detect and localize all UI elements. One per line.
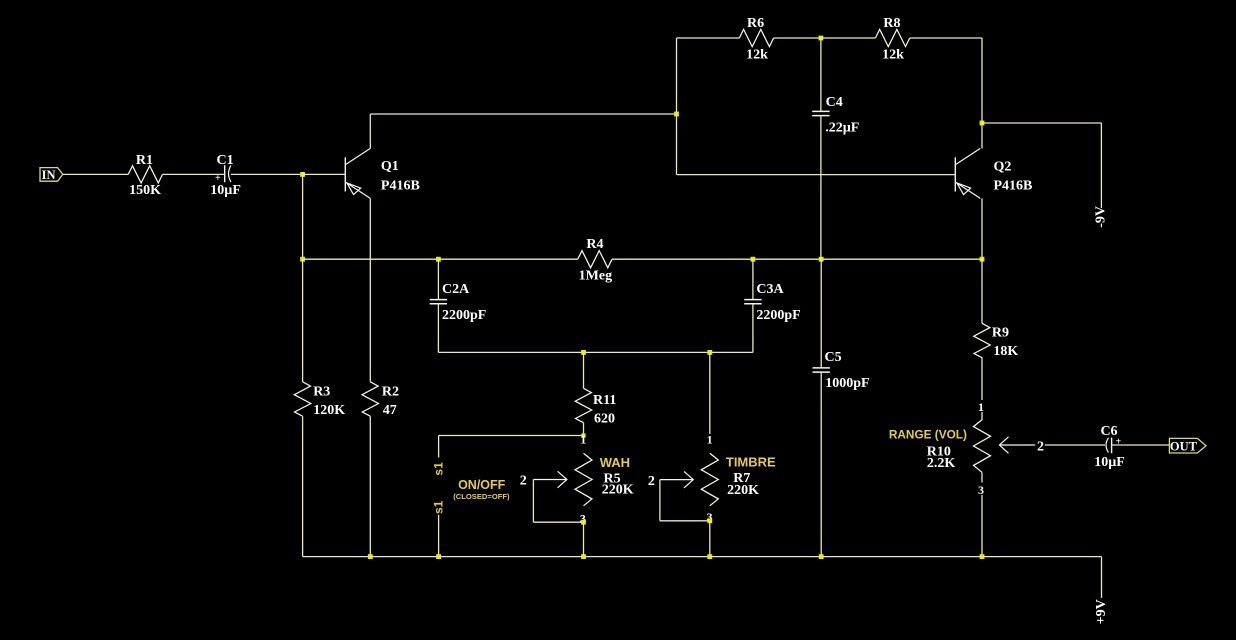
svg-text:2.2K: 2.2K (927, 456, 956, 471)
resistor R6 (739, 29, 773, 46)
svg-text:s1: s1 (431, 500, 445, 514)
svg-text:R11: R11 (593, 393, 616, 408)
wire R5 wiper to pin3 (532, 480, 534, 523)
svg-text:+9V: +9V (1094, 599, 1109, 624)
svg-text:R1: R1 (136, 153, 153, 168)
svg-text:TIMBRE: TIMBRE (726, 454, 776, 469)
svg-text:2: 2 (520, 474, 527, 489)
wire s1 to rail (438, 515, 440, 557)
wire top left to R6 (677, 37, 740, 39)
svg-text:WAH: WAH (600, 455, 630, 470)
wire R9 to R10 (981, 358, 983, 400)
svg-text:620: 620 (594, 412, 615, 427)
node A junction (Q1 base node) (300, 172, 305, 177)
junction -9V tap (980, 121, 985, 126)
pot R5 wiper arrow (533, 479, 566, 481)
wire R10 to rail (981, 473, 983, 483)
junction C2A top (436, 257, 441, 262)
svg-text:-9V: -9V (1093, 206, 1108, 228)
svg-text:3: 3 (978, 483, 984, 497)
wire switch node to s1 (439, 435, 584, 437)
wire Q1 emitter down to R2 (369, 198, 371, 381)
junction rail s1 (436, 554, 441, 559)
wire bridge line C2A to C3A (438, 351, 753, 353)
resistor R9 (974, 323, 991, 357)
svg-text:R8: R8 (883, 16, 900, 31)
svg-text:2200pF: 2200pF (756, 308, 800, 323)
svg-text:220K: 220K (727, 483, 759, 498)
wire to R7 pot (709, 352, 711, 434)
wire to R11 (583, 352, 585, 388)
wire ground rail (303, 556, 1102, 558)
svg-text:C3A: C3A (756, 282, 784, 297)
capacitor C6 (1106, 438, 1108, 453)
svg-text:P416B: P416B (994, 179, 1033, 194)
resistor R2 (362, 382, 379, 416)
svg-text:C2A: C2A (442, 282, 470, 297)
resistor R11 (575, 388, 592, 422)
wire R1 to C1 (163, 173, 225, 175)
svg-text:18K: 18K (993, 344, 1018, 359)
svg-text:R2: R2 (382, 384, 399, 399)
svg-text:10µF: 10µF (210, 183, 241, 198)
svg-text:1: 1 (580, 433, 586, 447)
wire C4 node to R8 (821, 37, 876, 39)
wire rail to +9V (1101, 557, 1103, 598)
svg-text:12k: 12k (882, 48, 904, 63)
wire R4 line left (303, 258, 578, 260)
svg-text:(CLOSED=OFF): (CLOSED=OFF) (453, 492, 510, 501)
svg-text:12k: 12k (746, 48, 768, 63)
svg-text:Q1: Q1 (381, 159, 399, 174)
wire R7 to rail (709, 521, 711, 557)
wire R5 to rail (583, 522, 585, 556)
svg-text:R3: R3 (313, 385, 330, 400)
wire node A to Q1 base (303, 173, 346, 175)
svg-text:150K: 150K (129, 183, 161, 198)
svg-text:P416B: P416B (381, 179, 420, 194)
pot R10 body (974, 420, 991, 473)
svg-text:C1: C1 (217, 153, 234, 168)
svg-text:C5: C5 (825, 350, 842, 365)
svg-text:2: 2 (648, 474, 655, 489)
wire node A down to R4 node (302, 174, 304, 259)
svg-text:47: 47 (383, 403, 397, 418)
wire IN to R1 (63, 173, 128, 175)
svg-text:2200pF: 2200pF (442, 308, 486, 323)
pot R7 body (701, 453, 718, 506)
junction R7 top (707, 350, 712, 355)
svg-text:RANGE (VOL): RANGE (VOL) (889, 427, 967, 441)
OUT output terminal (1169, 438, 1206, 453)
pot R5 body (575, 453, 592, 506)
transistor Q2 (954, 157, 956, 191)
junction C4 top (819, 36, 824, 41)
svg-text:OUT: OUT (1170, 439, 1198, 453)
junction rail R7 (707, 554, 712, 559)
wire R7 wiper to pin3 (659, 480, 661, 521)
svg-text:R6: R6 (747, 16, 764, 31)
junction R4 left node (300, 257, 305, 262)
svg-text:10µF: 10µF (1094, 455, 1125, 470)
IN input terminal (40, 168, 63, 182)
wire R3 to rail (302, 416, 304, 556)
capacitor C2A (437, 259, 439, 299)
wire Q1 collector to Q2 base net (370, 113, 676, 115)
junction rail R10 (980, 554, 985, 559)
capacitor C5 (820, 259, 822, 368)
svg-text:2: 2 (1037, 439, 1044, 454)
junction rail R2 (368, 554, 373, 559)
svg-text:IN: IN (42, 168, 56, 182)
svg-text:C4: C4 (826, 95, 843, 110)
junction C4-C5 node (819, 257, 824, 262)
junction rail C5 (819, 554, 824, 559)
resistor R8 (875, 29, 909, 46)
svg-text:220K: 220K (602, 483, 634, 498)
junction C3A top (751, 257, 756, 262)
wire Q2 emitter to R9 (981, 259, 983, 323)
wire R8 to top right corner (910, 37, 982, 39)
svg-text:+: + (215, 173, 221, 184)
svg-text:1Meg: 1Meg (579, 268, 612, 283)
wire C6 to OUT (1112, 444, 1170, 446)
junction rail R5 (581, 554, 586, 559)
capacitor C3A (752, 259, 754, 299)
wire top right corner down to Q2 collector (981, 38, 983, 148)
resistor R4 (578, 251, 612, 268)
junction R11 top (581, 350, 586, 355)
pot R7 wiper arrow (660, 479, 693, 481)
resistor R3 (294, 382, 311, 416)
wire Q2 emitter down (981, 198, 983, 259)
svg-text:Q2: Q2 (994, 160, 1012, 175)
svg-text:ON/OFF: ON/OFF (458, 478, 506, 492)
svg-text:R4: R4 (586, 237, 603, 252)
junction R7 bottom (707, 518, 712, 523)
svg-text:1: 1 (707, 432, 713, 446)
junction collector net (674, 112, 679, 117)
svg-text:.22µF: .22µF (825, 120, 859, 135)
capacitor C1 (224, 165, 226, 182)
wire vertical x676 top loop (676, 38, 678, 175)
wire R6 to C4 node (774, 37, 821, 39)
wire to Q2 base (677, 174, 956, 176)
transistor Q1 (344, 157, 346, 191)
pot R10 wiper arrow (1000, 444, 1035, 446)
wire R11 to switch node (583, 423, 585, 437)
wire R4 line right (612, 258, 982, 260)
capacitor C4 (820, 38, 822, 111)
svg-text:1: 1 (978, 400, 984, 414)
svg-text:1000pF: 1000pF (825, 376, 869, 391)
wire pin2 to C6 (1045, 444, 1105, 446)
wire to -9V (982, 122, 1101, 124)
junction Q2 emitter node (980, 257, 985, 262)
svg-text:120K: 120K (313, 403, 345, 418)
svg-text:R9: R9 (992, 326, 1009, 341)
wire R2 to rail (369, 416, 371, 556)
junction switch node (581, 433, 585, 437)
junction R5 bottom (581, 520, 586, 525)
svg-text:s1: s1 (431, 462, 445, 476)
wire Q1 collector up (369, 114, 371, 148)
wire node down to R3 (302, 259, 304, 382)
wire C1 to node A (231, 173, 303, 175)
resistor R1 (128, 166, 162, 183)
